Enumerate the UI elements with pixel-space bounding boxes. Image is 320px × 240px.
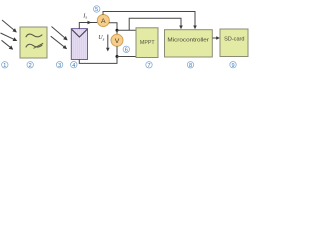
microcontroller box B8 <box>165 30 213 57</box>
svg-text:A: A <box>101 18 106 25</box>
wire photodiode top to ammeter <box>79 23 98 30</box>
node N2 junction dot <box>116 55 119 58</box>
photodiode chevron <box>72 29 88 37</box>
wire MPPT input to microcontroller (inner loop) <box>129 18 181 30</box>
label circle 2 <box>27 62 33 69</box>
svg-text:5: 5 <box>95 7 98 13</box>
SD-card box B9 <box>220 29 248 57</box>
ray arrow 5 <box>51 36 67 48</box>
wire photodiode bottom loop <box>79 57 117 64</box>
svg-text:7: 7 <box>147 63 150 69</box>
solar panel tilde 2 <box>26 44 43 47</box>
svg-text:4: 4 <box>72 63 75 69</box>
svg-text:Microcontroller: Microcontroller <box>167 38 209 44</box>
svg-text:9: 9 <box>231 63 234 69</box>
arrowhead into microcontroller (inner) <box>179 26 183 30</box>
wire node N2 to MPPT bottom <box>117 56 136 58</box>
solar panel tilde 2 cross stroke <box>34 43 44 48</box>
svg-text:8: 8 <box>189 63 192 69</box>
solar panel box B2 <box>20 27 47 58</box>
label circle 4 <box>71 61 77 68</box>
label circle 6 <box>123 46 129 53</box>
svg-text:MPPT: MPPT <box>140 40 155 46</box>
ray arrow 3 <box>2 40 13 49</box>
solar panel tilde 1 <box>26 34 43 37</box>
ray arrows group 2 <box>51 27 67 49</box>
label circle 7 <box>146 62 152 69</box>
voltage arrow Us <box>107 35 109 50</box>
label circle 8 <box>187 62 193 69</box>
arrow microcontroller to SD-card <box>213 37 218 39</box>
wire voltmeter to node N2 <box>116 46 118 56</box>
ray arrow 1 <box>2 20 16 32</box>
wire ammeter top to microcontroller (outer loop) <box>103 12 195 28</box>
svg-text:SD-card: SD-card <box>224 37 244 43</box>
photodiode box B4 <box>71 29 87 60</box>
svg-text:Us: Us <box>98 35 104 41</box>
MPPT box B7 <box>136 28 158 58</box>
ray arrow 2 <box>1 33 17 41</box>
svg-text:1: 1 <box>3 63 6 69</box>
svg-text:3: 3 <box>58 63 61 69</box>
arrowhead into microcontroller (outer) <box>193 26 197 30</box>
node N1 junction dot <box>116 29 119 32</box>
label circle 5 <box>94 6 100 13</box>
sun ray arrows group 1 <box>1 20 17 49</box>
ammeter A <box>97 15 109 27</box>
label circle 3 <box>56 61 62 68</box>
wire node N1 to voltmeter <box>116 30 118 34</box>
label circle 1 <box>2 62 8 69</box>
svg-text:V: V <box>115 38 120 45</box>
voltmeter V <box>111 34 123 46</box>
svg-text:Is: Is <box>82 12 87 19</box>
svg-text:2: 2 <box>29 63 32 69</box>
current direction arrowhead <box>88 21 92 25</box>
ray arrow 4 <box>52 27 68 40</box>
svg-text:6: 6 <box>125 47 128 53</box>
label circle 9 <box>230 61 236 68</box>
wire node N1 to MPPT <box>117 29 136 31</box>
wire ammeter out to node N1 <box>109 23 117 31</box>
